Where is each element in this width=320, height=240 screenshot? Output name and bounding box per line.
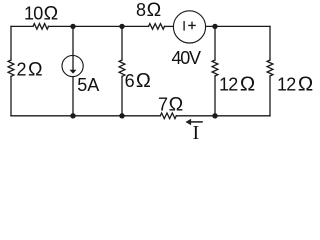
node dot bottom 12ohm <box>212 113 217 118</box>
current source I1 arrow head <box>70 70 77 74</box>
node dot bottom 6ohm <box>119 113 124 118</box>
wire bottom right segment <box>176 115 270 117</box>
wire top middle segment <box>49 25 149 27</box>
svg-text:12Ω: 12Ω <box>219 73 255 96</box>
wire right edge upper <box>269 26 271 60</box>
svg-text:8Ω: 8Ω <box>136 0 161 21</box>
wire left edge lower <box>10 76 12 115</box>
wire 6ohm branch upper <box>121 26 123 60</box>
resistor R4 6 ohm <box>119 60 125 76</box>
current I arrow shaft <box>191 121 203 123</box>
svg-text:6Ω: 6Ω <box>125 70 151 92</box>
wire right edge lower <box>269 76 271 116</box>
voltage source V1 circle <box>173 11 205 43</box>
resistor R5 7 ohm <box>160 113 176 119</box>
resistor R3 2 ohm <box>8 60 14 76</box>
resistor R1 10 ohm <box>33 24 49 30</box>
voltage source V1 minus bar <box>183 21 185 31</box>
node dot top 12ohm <box>212 24 217 29</box>
wire current source bottom lead <box>72 77 74 116</box>
wire current source top lead <box>72 26 74 55</box>
wire top-left segment <box>11 25 33 27</box>
svg-text:40V: 40V <box>172 48 202 68</box>
resistor R7 12 ohm rightmost <box>267 60 273 76</box>
voltage source V1 plus sign <box>188 22 196 30</box>
svg-text:2Ω: 2Ω <box>17 59 43 81</box>
wire 12ohm branch lower <box>214 76 216 116</box>
wire 12ohm branch upper <box>214 26 216 60</box>
svg-text:I: I <box>193 122 200 141</box>
resistor R6 12 ohm inner <box>212 60 218 76</box>
current source I1 arrow shaft <box>72 56 74 71</box>
svg-text:12Ω: 12Ω <box>277 73 313 96</box>
node dot top 6ohm <box>119 24 124 29</box>
svg-text:10Ω: 10Ω <box>24 3 58 25</box>
wire 8ohm to voltage source <box>165 25 174 27</box>
svg-text:5A: 5A <box>77 75 99 95</box>
resistor R2 8 ohm <box>149 24 165 30</box>
wire bottom left segment <box>11 115 160 117</box>
current I arrow head <box>185 119 191 125</box>
node dot top current-source <box>70 24 75 29</box>
wire left edge upper <box>10 26 12 60</box>
wire 6ohm branch lower <box>121 76 123 115</box>
node dot bottom current-source <box>70 113 75 118</box>
svg-text:7Ω: 7Ω <box>158 93 183 115</box>
wire voltage source to top-right corner <box>206 25 270 27</box>
current source I1 circle <box>62 55 83 76</box>
